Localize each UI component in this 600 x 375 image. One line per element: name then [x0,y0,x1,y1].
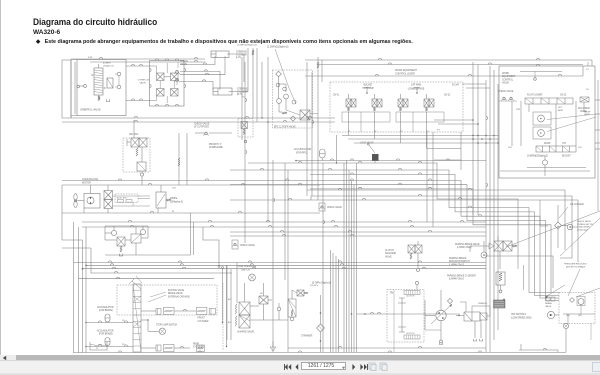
svg-text:CYLINDER: CYLINDER [198,321,209,323]
cooling fan propeller [74,194,77,201]
wire: lever top line [305,59,545,61]
svg-text:P10: P10 [508,147,512,149]
parking brake valve [494,241,503,251]
svg-text:{70kgf/cm2}: {70kgf/cm2} [103,66,114,68]
fan motor circle [87,197,94,204]
svg-text:{FOR PPC}: {FOR PPC} [296,152,308,155]
wire: fan IN line [62,212,320,214]
diagonal leaders to hst [545,285,565,297]
svg-text:AUTO TEN: AUTO TEN [117,197,127,200]
fan circuit inner lines [113,195,151,197]
PPC valve dashed box [330,82,463,132]
wire: WECV feed bundle vertical 4 [497,84,499,330]
svg-text:STEERING: STEERING [236,52,247,54]
wire: cylinder feed line 3 [180,74,225,76]
wire: wecv drain lines [527,167,586,169]
wire: drop to accumulator line 2 [226,265,228,346]
wire: left vertical top connection [61,213,63,240]
svg-text:CHECK VALVE: CHECK VALVE [240,244,255,247]
wire: fan drain connections [105,232,111,234]
svg-text:CHARGE VALVE: CHARGE VALVE [237,331,255,334]
svg-text:P2A CHECK: P2A CHECK [578,107,591,110]
svg-text:CONTROL LEVER: CONTROL LEVER [395,73,415,76]
svg-text:ACC: ACC [228,321,232,324]
svg-text:11.2MPa{113kgf/cm2}: 11.2MPa{113kgf/cm2} [267,46,289,49]
svg-text:N2: N2 [260,293,263,295]
svg-text:VALVE: VALVE [140,82,147,85]
wire: trunk y196 corner box [311,196,572,258]
svg-text:CYLINDER: CYLINDER [236,54,247,56]
wire: parking feed corner [486,256,553,288]
wire: drop to accumulator line 1 [222,269,224,323]
wire: pilot trunk 2 to WECV [438,124,478,215]
wire: staircase line e [62,181,559,299]
wire: vertical x318-323 [317,82,319,200]
hst filter circle-x [563,323,568,328]
WECV outer box [499,66,595,178]
wire: cylinder feed line 1 [180,64,215,66]
wire: wecv right stubs to page edge [595,99,600,101]
wire: fan valve verticals [133,120,135,138]
wire: trunk y232 [230,231,486,233]
svg-text:{INTERNAL ORGANS}: {INTERNAL ORGANS} [168,295,190,298]
svg-text:BRAKE VALVE: BRAKE VALVE [168,292,183,295]
wire: brake feed line 5 [79,278,215,280]
leader line from 11.2MPa to EPC valve [275,49,289,88]
front brake cylinder 2 [164,307,175,314]
leader pressure reducing [568,269,580,296]
svg-text:LOCK VALVE: LOCK VALVE [360,142,374,145]
wire: bottom trunk y348 [288,347,486,349]
svg-text:{FOR BRAKE}: {FOR BRAKE} [99,333,113,336]
last page button [359,363,369,371]
wire: orbitrol to overflow bumps [126,65,157,67]
EPC relief circles [277,99,282,104]
svg-text:FLOAT: FLOAT [452,84,460,87]
svg-text:D2: D2 [586,89,589,91]
horizontal scrollbar track [0,355,600,361]
clutch pistons [401,298,403,303]
float spool [525,98,573,104]
page number box [301,362,346,371]
steering unit outer box [77,60,126,116]
fan drain relief circles [111,230,116,235]
wire: vertical x427 x433 [426,132,428,222]
wire: verticals below check valve to fan box [178,133,180,185]
HST solenoid [480,313,487,320]
wire: pump verticals [440,290,442,310]
overflow box border bumps [155,59,158,61]
check valve left-mid [232,240,238,249]
svg-text:STOP LAMP SWITCH: STOP LAMP SWITCH [156,324,178,327]
wire: strainer vertical [320,295,322,324]
wire: check valve stubs [177,62,179,68]
PPC lever tilt [366,87,368,94]
svg-text:LIFT: LIFT [558,107,563,109]
wire: transmission feed [357,313,461,315]
wire: bottom trunk y352 [73,352,566,354]
wire: spring on left vertical [317,57,319,82]
EPC cutoff valve dashed box [273,70,313,128]
svg-text:CHECK VALVE: CHECK VALVE [498,90,514,93]
svg-text:ACCUMULATOR: ACCUMULATOR [97,306,114,309]
steering cylinder R.H. [213,88,232,95]
orbitrol spring and tank [98,96,100,101]
svg-text:*BRAKE(2F): *BRAKE(2F) [478,302,488,305]
wire: hst lower line [425,329,441,331]
wire: fan box sides [61,185,63,213]
svg-text:VALVE: VALVE [385,255,392,258]
wire: trunk y200 corner box [230,200,578,262]
PPC reduce valve 1 [346,99,351,107]
svg-text:{LOW SPEED:2WD}: {LOW SPEED:2WD} [511,317,532,320]
strainer diamond [317,324,325,332]
wire: rear brake line [141,347,156,349]
wecv lower relief valve [542,160,547,165]
svg-text:CLUTCH: CLUTCH [406,296,415,298]
wire: brake bundle line 3 [83,240,487,269]
wire: vertical bundle x344-356 [343,163,345,352]
fan relief valve [156,192,166,208]
svg-text:{LH/PAN ONLY}: {LH/PAN ONLY} [449,263,464,266]
wire: vertical pair center-top with spring [252,48,254,118]
toolbar bottom darker strip [0,373,600,375]
wire: PPC internal drops [348,112,350,132]
wire: cylinder feed line 4 [180,80,213,82]
leader to relief circle 1 [547,114,596,120]
charge solenoid valve top [259,296,268,304]
svg-text:{L.H.}: {L.H.} [236,57,241,59]
PPC accumulator capsule [320,149,326,158]
brake valve column [133,284,141,352]
orbitrol valve spool column [94,68,103,95]
p2a check symbol [580,97,589,102]
svg-text:CHECK VALVE: CHECK VALVE [327,206,342,209]
wire: return trunk line 1 [62,117,335,119]
overflow valve check 2 [171,73,179,81]
bottom toolbar [0,360,600,375]
svg-text:CLUTCH: CLUTCH [385,250,394,252]
wire: brake bundle line 1 [74,222,487,263]
svg-text:{EXCEPT KOREA}-IF: {EXCEPT KOREA}-IF [566,266,586,269]
wire: bottom-right corner line [519,350,558,352]
wire: PPC output line 4 [427,148,462,150]
svg-text:FLOAT LOWER: FLOAT LOWER [527,94,543,97]
wire: vertical x273 [272,160,274,352]
wecv relief circle 1 with box [533,112,551,125]
brake accumulator 2 [105,338,110,346]
svg-text:VALVE: VALVE [584,113,590,116]
EPC inlet diamond [276,71,282,77]
wire: staircase line c [230,170,559,293]
svg-text:STRAINER: STRAINER [301,335,313,338]
orbitrol metering box [107,78,113,88]
drain funnel triangle [270,347,276,351]
svg-text:{22.1kPa: {22.1kPa [310,285,319,287]
wire: hst drain ports [474,321,476,338]
fan drain valve squares [117,237,125,246]
HST right dashed box [559,293,595,324]
stop lamp switch circle [159,328,165,334]
svg-text:{0.9MPa/109k: {0.9MPa/109k [209,146,224,149]
HST servo block [494,300,506,308]
svg-text:P10: P10 [578,147,582,149]
fan solenoid dashed enclosure [123,138,150,172]
left window edge [0,0,1,375]
wire: vertical x285-288 [284,163,286,280]
svg-text:BRAKE: BRAKE [545,302,553,305]
EPC spring [282,112,287,114]
charge mid valve [288,299,296,317]
svg-text:15.2MPa{155kgf/cm2}: 15.2MPa{155kgf/cm2} [237,45,257,47]
svg-text:{FOR BRAKE}: {FOR BRAKE} [99,309,113,312]
first page button [283,363,293,371]
fan makeup dashed box [115,194,138,203]
steering cylinder L.H. [211,51,229,58]
lock valve lever [369,145,375,153]
overflow valve check 1 [157,73,165,81]
wire: trunk y222 [82,221,486,223]
wire: pilot trunk to WECV [434,120,473,215]
wire: top feed line to steering cylinders [71,58,205,60]
brake accumulator 1 [105,314,110,322]
svg-text:{LH/PAN ONLY}: {LH/PAN ONLY} [449,278,464,281]
wire: brake bundle line 2 [86,227,486,265]
port circle charge [277,307,281,311]
inching pedal lever [132,281,141,289]
overflow valve check 3 [157,89,165,97]
PPC lever lift [416,87,418,94]
wire: nested corner to brake bundle [203,227,219,265]
overflow valve box [150,61,185,107]
bypass check circle [567,224,573,230]
svg-text:ARM: ARM [558,109,563,112]
svg-text:{IT CUT/POST}: {IT CUT/POST} [194,126,209,129]
wire: lever second line [305,75,540,77]
svg-text:EPC CUTOFF VALVE: EPC CUTOFF VALVE [274,126,296,129]
wire: dashed boundary right of brake box [222,283,224,350]
wire: stop lamp connection [141,319,148,321]
svg-text:PRESSURE REDUCING: PRESSURE REDUCING [564,264,587,266]
wire: secondary bundle x330-338 [330,250,332,352]
fan cut solenoid dashed box [238,119,253,138]
wire: PPC output line 3 [354,142,499,144]
svg-text:{0.9MPa: {0.9MPa [103,63,111,65]
svg-text:T/M: T/M [390,293,394,295]
check valve symbols top [176,71,179,74]
wire: WECV feed bundle vertical 2 [489,66,491,352]
rear brake cylinder 2 [164,344,175,351]
wecv check valve symbols [503,97,505,99]
relief valves right of orbitrol [117,72,121,76]
wire: cooler connections [562,225,568,227]
fan second valve [137,162,146,171]
svg-text:DUMP: DUMP [544,143,551,145]
svg-text:ORBITROL VALVE: ORBITROL VALVE [80,108,101,112]
charge valve springs [235,304,237,314]
PPC inner manifold box left [342,112,390,122]
fan valve spring [136,148,138,156]
wire: staircase line g [310,189,551,293]
wire: lever mid line [318,64,583,66]
wire: staircase line f [230,185,559,301]
svg-text:MOTOR: MOTOR [82,182,91,185]
title: Diagrama do circuito hidraulico [33,17,157,27]
leader inching [150,292,166,297]
wire: WECV feed bundle vertical 1 [485,80,487,352]
HST motor circle [547,311,554,318]
wire: return trunk line 2 [62,121,335,123]
wire: fan OUT line [62,184,320,186]
PPC reduce valve 4 [424,99,429,107]
hst brake valve squares [546,297,550,301]
rear brake cylinder 3 [196,345,204,352]
PPC reduce valve 2 [372,99,377,107]
svg-text:BYPASS SET PR: BYPASS SET PR [577,223,593,226]
prev view icon (disabled) [368,362,377,371]
wire: hst motor lines [555,314,559,316]
orbitrol side arrows [92,74,94,75]
fan reversing valve spool column [104,191,113,200]
long diagonal leader to parking valve [506,211,600,247]
steering unit outer frame left [71,60,77,119]
overflow valve check 4 [171,89,179,97]
bullet note [36,39,413,45]
next page button [351,363,357,371]
svg-text:ACC: ACC [228,298,232,301]
svg-text:VALVE: VALVE [545,305,552,308]
steering wheel port circle [84,85,87,88]
wire: P1 drop from PPC [336,135,338,163]
HST control valve spool [464,312,480,321]
wire: trunk y190 corner box [307,190,565,250]
svg-text:IN: IN [172,211,175,213]
fan drain spring and tank [120,246,122,252]
wire: wecv internal verticals [520,101,522,146]
svg-text:D1: D1 [586,69,589,71]
oil tank symbol bottom-left [90,342,107,350]
check valve mid [319,203,325,211]
fan motor box [84,194,100,209]
svg-text:LIFT ARM: LIFT ARM [411,84,421,87]
svg-text:PARKING BRAKE CYLINDER: PARKING BRAKE CYLINDER [447,275,476,278]
wire: parking circuit lines [497,236,499,241]
lock valve solenoid (filled) [372,154,379,161]
wire: vertical x242 companion [241,57,243,140]
svg-text:L.H.: L.H. [88,55,93,59]
wire: cylinder rod side lines [227,53,244,55]
parking brake indicator circle [481,252,487,258]
svg-text:BUCKET: BUCKET [562,156,571,158]
small relief 22kPa [297,290,304,296]
front brake cylinder 1 [156,309,161,315]
svg-text:PARKING BRAKE: PARKING BRAKE [449,257,467,260]
hst charge pump circle [578,299,584,305]
svg-text:LOWER&RAISE: LOWER&RAISE [408,88,425,91]
wire: right edge verticals top [587,62,589,66]
oil cooler diamond [555,222,562,229]
leader to oil cooler [559,207,568,218]
wecv relief circle 2 with box [533,127,551,139]
svg-text:CN-32: CN-32 [444,95,451,97]
wire: left verticals to bottom [73,263,75,353]
svg-text:CN-01: CN-01 [333,95,340,97]
wire: trunk y227 [82,226,486,228]
wire: charge valve connections [244,283,246,302]
prev page button [294,363,300,371]
next view icon (disabled) [379,362,388,371]
leader to relief circle 2 [547,117,596,132]
svg-text:ACCUMULATOR: ACCUMULATOR [97,330,114,333]
wire: cylinder feed line 2 [180,70,220,72]
pump drain diamond [447,298,452,303]
svg-text:PARKING BRAKE VALVE: PARKING BRAKE VALVE [455,243,480,246]
wire: staircase line a from lock valve trunk [248,163,518,265]
svg-text:FRONT: FRONT [198,318,206,320]
svg-text:SOLENOID: SOLENOID [385,253,397,255]
wire: bundle top corners [462,83,486,85]
svg-text:{2B}: {2B} [578,315,582,317]
PPC reduce valve 3 [398,99,403,107]
wire: staircase stub ends [517,265,519,269]
wire: vertical x245 [244,62,246,243]
svg-text:STEERING: STEERING [237,89,248,91]
wire: second top line [90,61,205,63]
wire: top right horizontals [545,59,592,61]
EPC solenoid box [300,110,310,120]
svg-text:P3: P3 [437,130,440,132]
subtitle WA320-6 [33,29,60,36]
wire: PPC output line 1 [342,135,499,137]
long diagonal leader 2 [560,218,600,256]
wire: staircase line d [310,175,559,296]
wire: brake bundle line 4 [91,248,232,273]
bottom-right status icon [592,362,600,372]
wire: trunk y236 [230,235,486,237]
scrollbar left arrow button [0,355,16,361]
transmission dashed box [387,290,424,343]
svg-text:INCHING VALVE: INCHING VALVE [168,289,185,292]
svg-text:P2B: P2B [516,109,520,111]
svg-text:TILT: TILT [562,143,567,145]
wire: WECV feed bundle vertical 3 [493,70,495,340]
wire: lock valve drop [374,161,376,163]
charge valve spool upper [239,302,250,315]
charge valve spool lower [239,315,250,328]
rear brake cylinder 1 [156,345,161,351]
brake valve dashed box [117,285,217,315]
bucket spool [536,146,576,152]
front brake cylinder 3 [196,307,207,314]
wire: overflow internals [164,76,171,78]
check valve on line [205,132,208,135]
wire: accumulator2 line [86,346,133,348]
wire: front brake line [141,310,156,312]
HST pump circle [436,310,446,320]
wire: tm drop [393,342,395,352]
wire: charge area drop verticals [226,265,228,340]
wire: accumulator1 line [86,322,133,324]
wire: trunk y160 accumulator [296,160,486,162]
scrollbar thumb [16,355,600,361]
svg-text:CN-32: CN-32 [560,95,567,97]
parking brake cylinder [496,272,505,285]
clutch solenoid valve [408,245,415,253]
HST pump swash arrow [431,304,452,324]
svg-text:OVERFLOW: OVERFLOW [138,80,151,82]
front brake cylinder 4 [209,309,215,315]
wire: lines from steering box down [70,60,72,118]
